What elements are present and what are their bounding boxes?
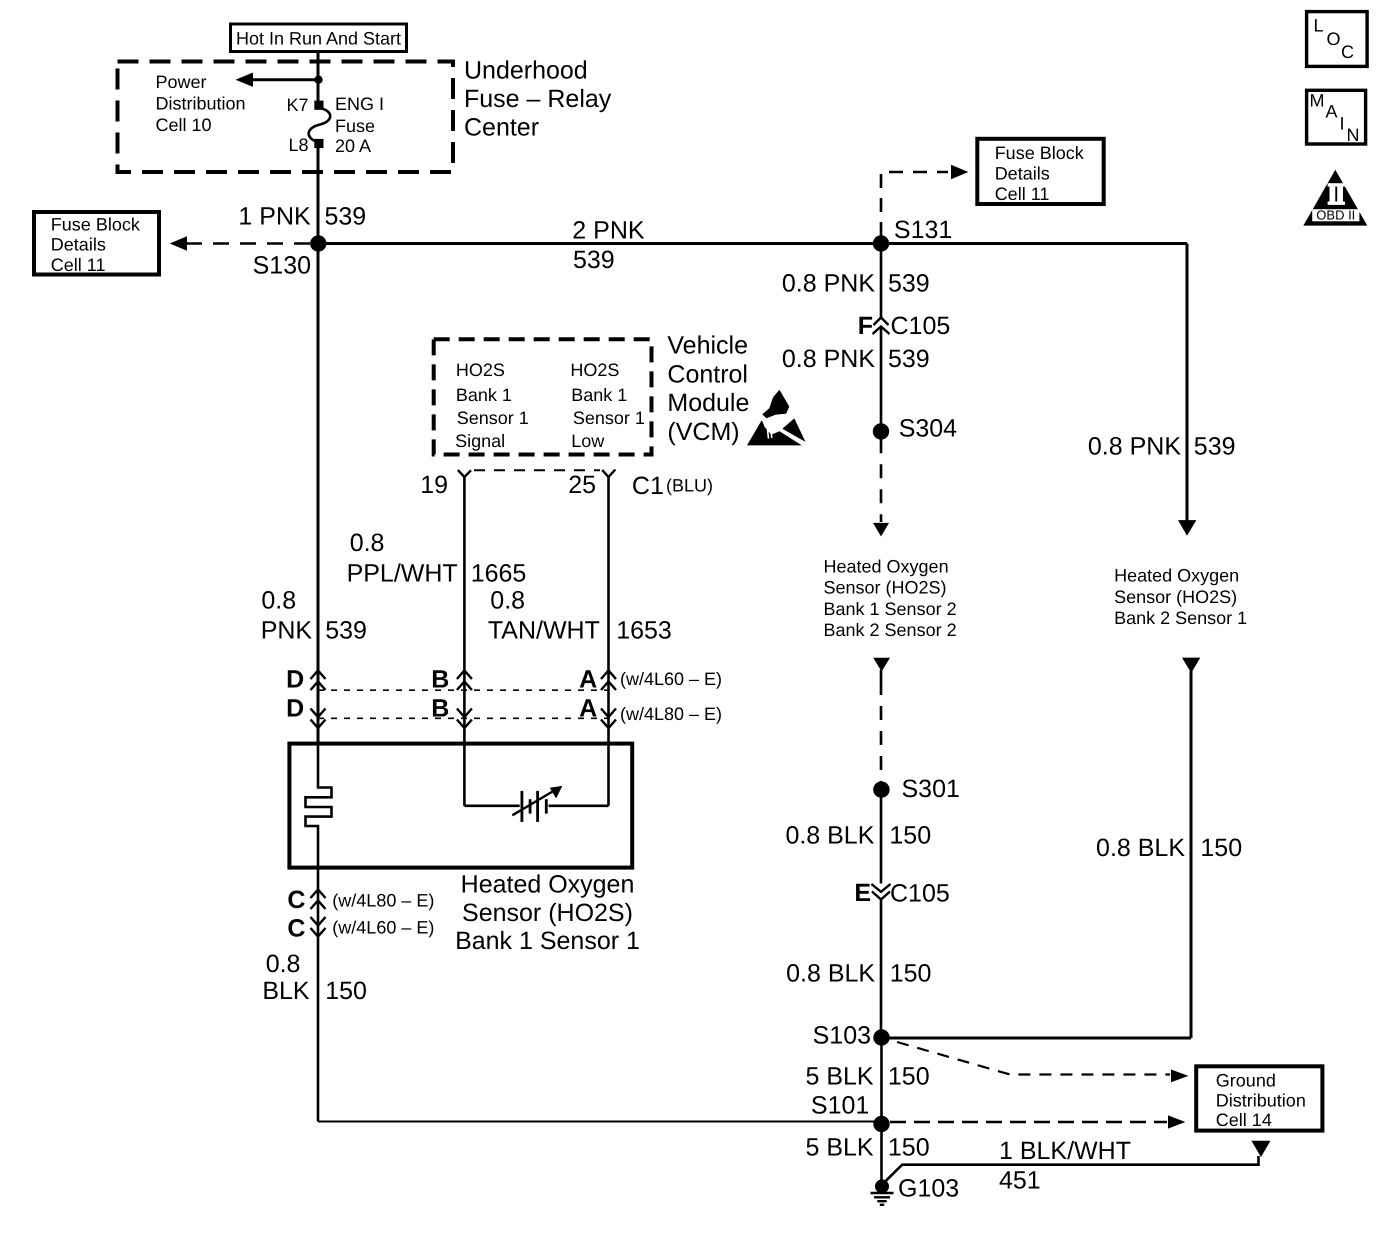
svg-text:B: B bbox=[431, 666, 449, 694]
svg-text:A: A bbox=[579, 695, 597, 723]
splice S131 bbox=[873, 235, 889, 251]
svg-text:S304: S304 bbox=[899, 415, 957, 443]
svg-text:(w/4L60 – E): (w/4L60 – E) bbox=[620, 669, 722, 689]
svg-text:19: 19 bbox=[420, 471, 448, 499]
dashed arrow to Ground Distribution bbox=[897, 1042, 1170, 1075]
svg-text:Module: Module bbox=[667, 389, 749, 417]
svg-text:1 PNK: 1 PNK bbox=[238, 202, 311, 230]
wire 5 BLK 150 bbox=[880, 1124, 883, 1181]
dashed wire bbox=[880, 439, 883, 522]
arrow to HO2S Bank 1 Sensor 2 bbox=[873, 523, 889, 537]
svg-text:ENG I: ENG I bbox=[335, 94, 384, 114]
svg-text:K7: K7 bbox=[286, 95, 308, 115]
svg-text:0.8: 0.8 bbox=[266, 950, 301, 978]
svg-text:Heated Oxygen: Heated Oxygen bbox=[824, 557, 949, 577]
fuse ENG I 20 A bbox=[309, 101, 331, 148]
svg-text:HO2S: HO2S bbox=[456, 360, 505, 380]
svg-text:Center: Center bbox=[464, 113, 539, 141]
svg-text:Sensor (HO2S): Sensor (HO2S) bbox=[462, 899, 633, 927]
wire bbox=[317, 52, 320, 101]
svg-text:150: 150 bbox=[888, 1133, 930, 1161]
dashed arrow to Ground Distribution bbox=[890, 1121, 1167, 1124]
svg-text:Bank 1: Bank 1 bbox=[456, 385, 512, 405]
svg-text:Fuse Block: Fuse Block bbox=[995, 143, 1085, 163]
wire 0.8 BLK 150 bbox=[880, 900, 883, 1038]
wire bbox=[318, 1121, 882, 1123]
svg-text:451: 451 bbox=[999, 1166, 1041, 1194]
MAIN symbol bbox=[1307, 90, 1366, 144]
svg-text:Ground: Ground bbox=[1216, 1071, 1276, 1091]
Ground Distribution Cell 14 box bbox=[1196, 1066, 1322, 1130]
svg-text:C105: C105 bbox=[890, 879, 950, 907]
wire 0.8 BLK 150 bbox=[880, 790, 883, 884]
svg-text:Cell 14: Cell 14 bbox=[1216, 1110, 1272, 1130]
splice S103 bbox=[873, 1029, 889, 1045]
svg-text:Bank 2 Sensor 2: Bank 2 Sensor 2 bbox=[824, 620, 957, 640]
svg-text:Cell 10: Cell 10 bbox=[156, 115, 212, 135]
sensor element bbox=[464, 744, 608, 822]
connector C (w/4L60-E) bbox=[311, 917, 326, 937]
svg-text:Bank 1: Bank 1 bbox=[571, 385, 627, 405]
svg-text:M: M bbox=[1310, 91, 1325, 111]
connector F C105 bbox=[873, 318, 890, 335]
svg-text:C: C bbox=[1341, 42, 1354, 62]
connector E C105 bbox=[871, 884, 890, 900]
svg-text:Bank 2 Sensor 1: Bank 2 Sensor 1 bbox=[1114, 608, 1247, 628]
splice S301 bbox=[873, 781, 889, 797]
svg-text:I: I bbox=[1340, 114, 1345, 134]
connector C1 pins 19 25 bbox=[458, 470, 615, 478]
svg-text:539: 539 bbox=[325, 203, 367, 231]
svg-text:Bank 1 Sensor 1: Bank 1 Sensor 1 bbox=[455, 927, 640, 955]
svg-text:O: O bbox=[1327, 29, 1341, 49]
wire 2 PNK 539 bbox=[318, 242, 1187, 245]
HO2S Bank 1 Sensor 1 box bbox=[289, 744, 632, 868]
wire 0.8 PNK 539 bbox=[880, 244, 883, 318]
connector C (w/4L80-E) bbox=[311, 890, 326, 910]
svg-text:G103: G103 bbox=[898, 1174, 959, 1202]
svg-text:(w/4L80 – E): (w/4L80 – E) bbox=[332, 891, 434, 911]
wire 0.8 PNK 539 bbox=[880, 328, 883, 425]
wire 0.8 TAN/WHT 1653 bbox=[607, 477, 610, 744]
svg-text:Fuse: Fuse bbox=[335, 116, 375, 136]
svg-text:0.8: 0.8 bbox=[350, 529, 385, 557]
wire from HO2S Bank 1 Sensor 2 bbox=[873, 658, 890, 672]
svg-text:E: E bbox=[854, 879, 871, 907]
svg-text:N: N bbox=[1347, 125, 1360, 145]
heater element bbox=[306, 744, 332, 868]
ESD symbol bbox=[747, 390, 806, 446]
svg-text:150: 150 bbox=[890, 959, 932, 987]
svg-text:539: 539 bbox=[1194, 432, 1236, 460]
svg-text:C: C bbox=[287, 914, 305, 942]
svg-text:539: 539 bbox=[888, 270, 930, 298]
Underhood Fuse-Relay Center box bbox=[118, 62, 454, 173]
svg-text:150: 150 bbox=[1200, 834, 1242, 862]
svg-text:F: F bbox=[858, 312, 873, 340]
svg-text:S131: S131 bbox=[894, 216, 952, 244]
svg-text:0.8 PNK: 0.8 PNK bbox=[782, 270, 875, 298]
svg-text:5 BLK: 5 BLK bbox=[805, 1133, 873, 1161]
connector A (w/4L60-E) bbox=[601, 671, 616, 691]
svg-text:25: 25 bbox=[568, 471, 596, 499]
splice S304 bbox=[873, 423, 889, 439]
svg-text:0.8 PNK: 0.8 PNK bbox=[1088, 432, 1181, 460]
svg-text:150: 150 bbox=[889, 821, 931, 849]
svg-text:C105: C105 bbox=[891, 312, 951, 340]
svg-text:S103: S103 bbox=[813, 1022, 871, 1050]
svg-text:Cell 11: Cell 11 bbox=[995, 184, 1050, 204]
svg-text:PNK: PNK bbox=[261, 616, 313, 644]
connector A (w/4L80-E) bbox=[601, 709, 616, 729]
svg-text:(w/4L60 – E): (w/4L60 – E) bbox=[332, 918, 434, 938]
svg-text:Power: Power bbox=[156, 72, 207, 92]
wire bbox=[882, 1037, 1192, 1040]
svg-text:Details: Details bbox=[995, 164, 1050, 184]
connector row (w/4L60-E) dashed line bbox=[318, 689, 609, 691]
dashed arrow to Fuse Block Details (left) bbox=[186, 242, 310, 245]
wire bbox=[317, 868, 320, 1122]
svg-text:Sensor 1: Sensor 1 bbox=[573, 408, 645, 428]
OBD II symbol bbox=[1303, 170, 1367, 226]
Vehicle Control Module box bbox=[434, 339, 652, 454]
svg-text:(VCM): (VCM) bbox=[667, 418, 739, 446]
svg-text:C1: C1 bbox=[632, 472, 664, 500]
svg-text:(w/4L80 – E): (w/4L80 – E) bbox=[620, 704, 722, 724]
svg-text:Distribution: Distribution bbox=[1216, 1090, 1306, 1110]
Fuse Block Details Cell 11 box (left) bbox=[34, 212, 159, 275]
splice S130 bbox=[310, 235, 326, 251]
splice S101 bbox=[873, 1116, 889, 1132]
svg-text:B: B bbox=[431, 695, 449, 723]
connector D (w/4L80-E) bbox=[311, 709, 326, 729]
svg-text:L: L bbox=[1314, 16, 1324, 36]
svg-text:S101: S101 bbox=[811, 1092, 869, 1120]
Hot In Run And Start label box bbox=[231, 24, 407, 52]
wire 5 BLK 150 bbox=[880, 1038, 883, 1125]
connector B (w/4L60-E) bbox=[457, 671, 472, 691]
svg-text:BLK: BLK bbox=[262, 977, 310, 1005]
svg-text:Control: Control bbox=[667, 360, 748, 388]
arrow from Ground Distribution bbox=[1251, 1141, 1270, 1157]
wire bbox=[317, 148, 320, 244]
svg-text:(BLU): (BLU) bbox=[666, 476, 713, 496]
svg-text:Bank 1 Sensor 2: Bank 1 Sensor 2 bbox=[824, 599, 957, 619]
svg-text:150: 150 bbox=[888, 1063, 930, 1091]
arrow to Power Distribution bbox=[250, 78, 318, 81]
connector B (w/4L80-E) bbox=[457, 709, 472, 729]
svg-text:S130: S130 bbox=[253, 252, 311, 280]
svg-text:Hot In Run And Start: Hot In Run And Start bbox=[236, 29, 401, 49]
svg-text:Heated Oxygen: Heated Oxygen bbox=[461, 870, 635, 898]
Fuse Block Details Cell 11 box (right) bbox=[977, 139, 1103, 204]
svg-text:Heated Oxygen: Heated Oxygen bbox=[1114, 565, 1239, 585]
connector D (w/4L60-E) bbox=[311, 671, 326, 691]
svg-text:D: D bbox=[286, 666, 304, 694]
svg-text:539: 539 bbox=[325, 616, 367, 644]
svg-text:HO2S: HO2S bbox=[570, 360, 619, 380]
svg-text:Sensor 1: Sensor 1 bbox=[457, 408, 529, 428]
ground G103 bbox=[875, 1179, 889, 1193]
svg-text:Sensor (HO2S): Sensor (HO2S) bbox=[1114, 587, 1237, 607]
svg-text:OBD II: OBD II bbox=[1316, 208, 1355, 223]
svg-text:0.8 PNK: 0.8 PNK bbox=[782, 345, 875, 373]
svg-text:D: D bbox=[286, 695, 304, 723]
svg-text:S301: S301 bbox=[902, 775, 960, 803]
svg-text:A: A bbox=[1326, 102, 1338, 122]
svg-text:C: C bbox=[287, 886, 305, 914]
svg-text:150: 150 bbox=[325, 977, 367, 1005]
svg-text:539: 539 bbox=[573, 246, 615, 274]
svg-text:Vehicle: Vehicle bbox=[667, 331, 748, 359]
svg-text:539: 539 bbox=[888, 345, 930, 373]
svg-text:Fuse Block: Fuse Block bbox=[51, 214, 141, 234]
svg-text:0.8 BLK: 0.8 BLK bbox=[785, 821, 874, 849]
svg-text:Cell 11: Cell 11 bbox=[51, 255, 106, 275]
svg-text:1 BLK/WHT: 1 BLK/WHT bbox=[999, 1137, 1131, 1165]
svg-text:0.8: 0.8 bbox=[261, 587, 296, 615]
wire 1 BLK/WHT 451 bbox=[885, 1156, 1259, 1182]
svg-text:Low: Low bbox=[571, 431, 605, 451]
svg-text:Underhood: Underhood bbox=[464, 56, 588, 84]
svg-text:Signal: Signal bbox=[455, 431, 505, 451]
svg-text:A: A bbox=[579, 666, 597, 694]
svg-text:5 BLK: 5 BLK bbox=[805, 1063, 873, 1091]
junction dot bbox=[314, 76, 322, 84]
svg-text:2 PNK: 2 PNK bbox=[572, 217, 645, 245]
wire 0.8 PPL/WHT 1665 bbox=[463, 477, 466, 744]
wire from HO2S Bank 2 Sensor 1 bbox=[1182, 658, 1200, 673]
LOC symbol bbox=[1307, 12, 1368, 67]
svg-text:0.8 BLK: 0.8 BLK bbox=[1096, 834, 1185, 862]
svg-text:PPL/WHT: PPL/WHT bbox=[347, 559, 458, 587]
svg-text:TAN/WHT: TAN/WHT bbox=[488, 616, 600, 644]
svg-text:0.8: 0.8 bbox=[490, 587, 525, 615]
svg-text:1665: 1665 bbox=[471, 559, 527, 587]
svg-text:1653: 1653 bbox=[616, 616, 672, 644]
arrow to HO2S Bank 2 Sensor 1 bbox=[1178, 520, 1196, 536]
svg-text:Sensor (HO2S): Sensor (HO2S) bbox=[824, 578, 947, 598]
svg-text:Details: Details bbox=[51, 235, 106, 255]
svg-text:20 A: 20 A bbox=[335, 136, 371, 156]
svg-text:Distribution: Distribution bbox=[156, 93, 246, 113]
svg-text:0.8 BLK: 0.8 BLK bbox=[786, 959, 875, 987]
wire 0.8 PNK 539 (right branch) bbox=[1186, 244, 1189, 522]
svg-text:L8: L8 bbox=[288, 135, 308, 155]
connector row (w/4L80-E) dashed line bbox=[318, 717, 609, 719]
dashed arrow to Fuse Block Details (right) bbox=[881, 172, 948, 236]
svg-text:Fuse – Relay: Fuse – Relay bbox=[464, 85, 612, 113]
wire bbox=[317, 244, 320, 744]
